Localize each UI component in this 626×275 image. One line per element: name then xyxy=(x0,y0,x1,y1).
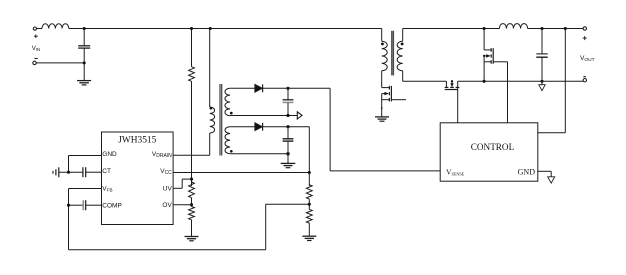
wire rail after L2 xyxy=(528,28,583,30)
svg-text:VDRAIN: VDRAIN xyxy=(152,151,172,159)
T2 primary winding xyxy=(382,41,388,71)
transistor Q3 channel xyxy=(445,86,460,88)
resistor R5 xyxy=(306,209,312,223)
wire output top rail xyxy=(403,28,500,30)
T1 core xyxy=(220,84,222,156)
wire Q3 source and gate to control xyxy=(457,81,459,123)
capacitor C3 xyxy=(283,127,294,154)
pin label GND control xyxy=(518,168,536,177)
pin label UV xyxy=(163,186,173,193)
svg-text:GND: GND xyxy=(102,151,117,158)
node input rail / C1 xyxy=(83,27,86,30)
wire feedback drop xyxy=(564,29,566,133)
inductor L2 xyxy=(499,24,527,29)
wire VDRAIN xyxy=(173,154,210,156)
pin label VFB xyxy=(102,186,112,193)
transistor Q1 drain lead xyxy=(382,87,390,89)
node Q1 stray xyxy=(381,107,383,109)
T2 core xyxy=(392,31,394,76)
wire R1 down xyxy=(191,81,193,186)
node Q2 body xyxy=(483,55,485,57)
T2 secondary dot xyxy=(401,42,404,45)
ground CT sideways xyxy=(53,167,59,177)
label + xyxy=(34,34,38,38)
wire Q1 gate stub xyxy=(391,99,406,101)
pin label VCC xyxy=(160,168,172,176)
T2 secondary winding xyxy=(397,41,403,71)
wire C1 to ground xyxy=(83,63,85,81)
label Vin xyxy=(32,45,41,52)
svg-text:OV: OV xyxy=(162,202,172,209)
svg-text:CT: CT xyxy=(102,168,111,175)
capacitor C6 COMP xyxy=(83,200,85,210)
wire VCC xyxy=(173,172,309,174)
terminal Vout+ xyxy=(583,27,586,30)
wire CT right xyxy=(86,171,102,173)
wire Vin- to C1 xyxy=(36,62,84,64)
wire UV step xyxy=(173,179,191,188)
wire T1 secB bottom xyxy=(230,153,288,155)
capacitor C5 xyxy=(536,29,547,82)
svg-text:CONTROL: CONTROL xyxy=(471,142,515,152)
T2 primary dot xyxy=(381,42,384,45)
ground arrow C5 xyxy=(539,85,545,91)
wire D1 cathode xyxy=(263,87,331,89)
wire rail to T1 primary xyxy=(209,29,211,108)
capacitor C1 xyxy=(78,29,90,63)
terminal Vin- xyxy=(33,61,36,64)
wire T2 secondary top xyxy=(402,29,404,42)
wire control GND down xyxy=(550,171,552,177)
label Vout xyxy=(580,55,595,63)
pin label Vsense xyxy=(446,168,465,177)
ground Q1 xyxy=(375,117,389,121)
wire T1 secA top to D1 xyxy=(230,87,255,89)
label JWH3515 xyxy=(118,136,156,146)
wire control GND pin xyxy=(538,170,551,172)
transistor Q1 body arrow xyxy=(382,92,389,95)
node Q2 source / rail xyxy=(483,80,486,83)
node rail / Q2 drain xyxy=(483,27,486,30)
pin label CT xyxy=(102,168,111,175)
wire Q1 source down xyxy=(381,94,383,117)
svg-text:COMP: COMP xyxy=(102,203,122,210)
wire GND pin xyxy=(69,155,102,157)
pin label VDRAIN xyxy=(152,151,172,159)
node input rail / T1 primary xyxy=(209,27,212,30)
node UV tap xyxy=(190,178,193,181)
terminal Vout- xyxy=(583,79,586,82)
node D2 / C3 xyxy=(286,125,289,128)
transistor Q1 source lead xyxy=(382,99,390,101)
wire R3 to ground xyxy=(191,220,193,237)
wire Q2 gate lead xyxy=(493,61,507,63)
diode D1 xyxy=(255,84,263,92)
T1 secondary A dot xyxy=(230,112,233,115)
node rail / feedback xyxy=(564,27,567,30)
svg-text:JWH3515: JWH3515 xyxy=(118,136,156,146)
transistor Q2 body arrow xyxy=(484,54,491,57)
T1 secondary B winding xyxy=(225,127,230,154)
svg-text:UV: UV xyxy=(163,186,173,193)
ground arrow control xyxy=(548,177,555,183)
wire rail to R1 xyxy=(191,29,193,67)
wire VFB pin xyxy=(69,188,102,190)
wire T1 secA bottom xyxy=(230,115,297,117)
pin label OV xyxy=(162,202,172,209)
transistor Q3 body arrow xyxy=(450,81,453,87)
wire R4-R5 xyxy=(308,199,310,209)
wire Vsense xyxy=(330,170,440,172)
node C3 bottom xyxy=(286,152,289,155)
wire D2 cathode xyxy=(263,126,310,128)
wire xyxy=(37,28,42,30)
wire T1 primary to VDRAIN xyxy=(209,133,211,155)
node C5 / bottom rail xyxy=(540,80,543,83)
wire Q2 drain drop xyxy=(483,29,485,50)
node D1 / C2 xyxy=(286,87,289,90)
T1 primary dot xyxy=(210,107,213,110)
T1 secondary B dot xyxy=(230,150,233,153)
T1 primary winding xyxy=(210,107,215,133)
wire FB link bottom xyxy=(69,249,266,251)
wire output bottom rail left xyxy=(403,80,447,82)
node C2 bottom xyxy=(286,114,289,117)
wire T2 secondary bottom xyxy=(402,71,404,82)
wire FB link up xyxy=(68,189,70,250)
wire T1 secB top to D2 xyxy=(230,126,255,128)
node rail / C5 xyxy=(540,27,543,30)
ground left chain xyxy=(185,237,199,241)
wire input top rail xyxy=(69,28,382,30)
inductor L1 xyxy=(42,24,69,29)
control box xyxy=(440,123,538,181)
ground right chain xyxy=(302,236,316,240)
terminal Vin+ xyxy=(33,27,36,30)
svg-text:VCC: VCC xyxy=(160,168,172,176)
label - out xyxy=(583,76,586,78)
svg-text:GND: GND xyxy=(518,168,536,177)
resistor R1 xyxy=(189,67,195,82)
wire GND down xyxy=(68,156,70,173)
wire D1 out to Vsense drop xyxy=(329,88,331,171)
label CONTROL xyxy=(471,142,515,152)
ground input xyxy=(77,81,91,85)
label + out xyxy=(583,36,587,40)
resistor R3 xyxy=(189,207,195,220)
wire COMP right xyxy=(86,204,102,206)
node OV tap xyxy=(190,203,193,206)
wire FB tap left xyxy=(266,203,310,205)
wire CT left xyxy=(59,171,83,173)
node Vin- / C1 xyxy=(83,61,86,64)
label - xyxy=(35,58,38,60)
capacitor C2 xyxy=(283,88,294,115)
wire control feedback pin xyxy=(538,132,566,134)
ground aux xyxy=(281,163,296,167)
diode D2 xyxy=(255,123,263,131)
op-amp U1 JWH3515 box xyxy=(102,132,174,225)
transistor Q3 gate bar xyxy=(445,89,458,91)
transistor Q1 channel xyxy=(388,86,390,102)
wire R5 to ground xyxy=(308,223,310,236)
transistor Q3 drain bend xyxy=(445,81,447,87)
node GND/CT xyxy=(67,171,70,174)
transistor Q1 gate bar xyxy=(390,86,392,102)
terminal arrow secA return xyxy=(297,112,302,119)
wire Q2 gate to control xyxy=(507,62,509,123)
transistor Q2 source lead xyxy=(484,61,491,63)
transistor Q2 drain lead xyxy=(484,49,491,51)
wire COMP left xyxy=(69,204,83,206)
wire D2 out down xyxy=(308,127,310,186)
node input rail / R1 xyxy=(190,27,193,30)
wire output bottom rail right xyxy=(458,80,584,82)
transistor Q2 gate bar xyxy=(492,48,494,63)
node Q3 body xyxy=(451,80,453,82)
wire FB link down xyxy=(265,204,267,250)
node VFB/COMP xyxy=(67,204,70,207)
node Vcc tap xyxy=(308,171,311,174)
capacitor C4 CT xyxy=(83,167,86,177)
wire C3 to ground xyxy=(287,154,289,164)
T1 secondary A winding xyxy=(225,88,230,115)
node FB tap xyxy=(308,203,311,206)
pin label GND xyxy=(102,151,117,158)
wire Q2 source down xyxy=(483,56,485,81)
pin label COMP xyxy=(102,203,122,210)
wire T2 primary to Q1 drain xyxy=(381,71,383,88)
resistor R4 xyxy=(306,185,312,199)
wire C5 ground stem xyxy=(541,81,543,84)
transistor Q2 channel xyxy=(490,48,492,63)
wire OV xyxy=(173,204,191,206)
wire R2-R3 xyxy=(191,198,193,207)
resistor R2 xyxy=(189,182,195,198)
wire rail corner to T2 primary xyxy=(381,29,383,42)
